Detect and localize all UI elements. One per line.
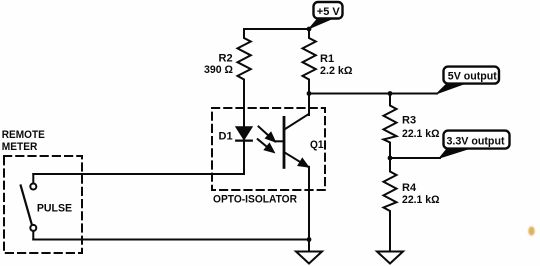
wire 3.3V tap [390, 157, 440, 159]
svg-text:Q1: Q1 [310, 139, 324, 151]
svg-text:R1: R1 [320, 53, 334, 65]
bottom return wire [33, 239, 309, 241]
svg-text:R2: R2 [219, 52, 233, 64]
svg-text:22.1 kΩ: 22.1 kΩ [402, 194, 440, 206]
+5 V supply callout [309, 2, 343, 29]
svg-text:PULSE: PULSE [37, 202, 72, 214]
svg-text:+5 V: +5 V [317, 6, 341, 18]
resistor R1 [303, 29, 316, 94]
base stub wire [275, 140, 284, 142]
5V output callout [437, 67, 500, 94]
resistor R2 [238, 29, 251, 127]
svg-text:R4: R4 [402, 182, 417, 194]
svg-text:REMOTE: REMOTE [2, 129, 45, 141]
ground right [377, 252, 403, 264]
wire to ground left [308, 240, 310, 252]
ground left [296, 252, 322, 264]
svg-text:METER: METER [2, 141, 38, 153]
light arrow 1 [259, 127, 269, 136]
watermark fragment [528, 226, 534, 235]
node junction R3/R4 [388, 156, 393, 161]
svg-text:22.1 kΩ: 22.1 kΩ [402, 128, 440, 140]
switch PULSE [32, 174, 34, 183]
svg-text:390 Ω: 390 Ω [204, 64, 233, 76]
Q1 collector wire [308, 94, 310, 116]
wire 5V rail to output [309, 93, 437, 95]
transistor Q1 [283, 117, 286, 167]
resistor R3 [384, 94, 397, 159]
Q1 emitter wire [308, 167, 310, 240]
light arrow 2 [258, 139, 268, 147]
svg-text:2.2 kΩ: 2.2 kΩ [320, 65, 353, 77]
opto-isolator dashed box [212, 108, 325, 190]
LED D1 [236, 127, 252, 139]
resistor R4 [384, 158, 397, 251]
wire top horizontal +5V rail [244, 28, 309, 30]
remote meter dashed box [4, 156, 82, 253]
svg-text:3.3V output: 3.3V output [447, 136, 505, 148]
svg-text:5V output: 5V output [448, 71, 497, 83]
node junction emitter/ground [307, 237, 312, 242]
node junction R3 top [388, 91, 393, 96]
svg-text:R3: R3 [402, 115, 416, 127]
svg-text:D1: D1 [219, 130, 233, 142]
node junction below +5V [307, 27, 312, 32]
node junction R1 bottom [307, 91, 312, 96]
3.3V output callout [440, 131, 510, 158]
svg-text:OPTO-ISOLATOR: OPTO-ISOLATOR [213, 193, 297, 205]
